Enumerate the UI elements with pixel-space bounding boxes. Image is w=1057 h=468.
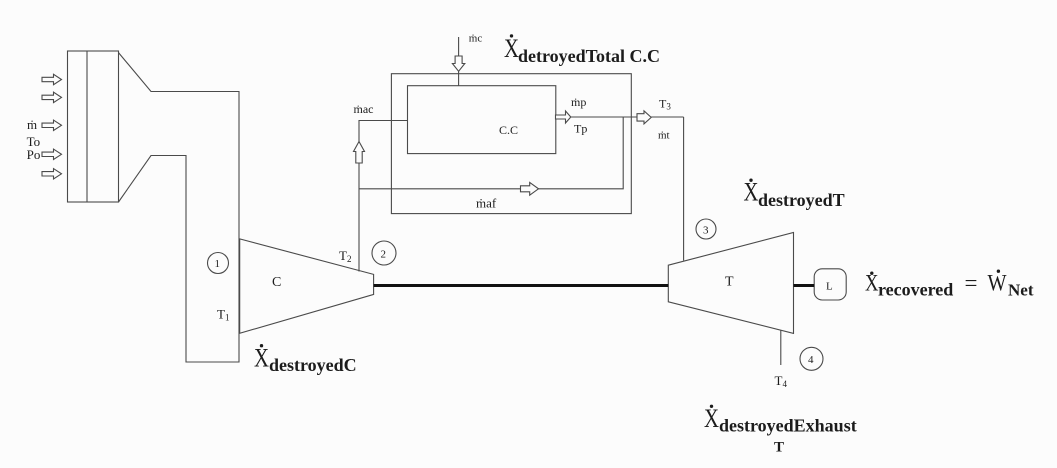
- label Xdot destroyedC: [254, 344, 357, 376]
- svg-text:ṁac: ṁac: [354, 102, 374, 116]
- combustion chamber outer boundary: [391, 74, 631, 214]
- svg-text:ṁaf: ṁaf: [476, 196, 497, 211]
- svg-text:L: L: [826, 281, 833, 293]
- label Xdot destroyedT: [744, 178, 845, 211]
- svg-text:4: 4: [808, 354, 814, 366]
- wire mac: compressor exit to C.C: [359, 121, 408, 272]
- inlet flow arrow 2: [42, 92, 62, 102]
- air intake filter: [68, 51, 119, 202]
- svg-text:T: T: [774, 440, 784, 456]
- arrow mc (down): [452, 56, 464, 71]
- svg-text:ṁp: ṁp: [571, 95, 586, 109]
- combustion chamber C.C: [408, 86, 556, 154]
- arrow T3 (right): [637, 111, 651, 124]
- svg-text:X: X: [254, 344, 269, 373]
- turbine T: [668, 233, 793, 334]
- arrow mac (up): [354, 142, 365, 164]
- svg-text:2: 2: [381, 249, 387, 261]
- svg-text:destroyedT: destroyedT: [758, 190, 845, 210]
- label Xdot destroyedExhaust: [704, 404, 857, 436]
- wire maf bypass: [359, 117, 623, 189]
- svg-text:destroyedC: destroyedC: [269, 355, 357, 375]
- node 1 circle: [208, 253, 229, 274]
- svg-text:recovered: recovered: [878, 280, 953, 300]
- svg-text:ṁt: ṁt: [658, 130, 670, 142]
- svg-text:ṁ: ṁ: [27, 117, 37, 132]
- svg-text:Net: Net: [1008, 281, 1034, 300]
- svg-text:=: =: [965, 270, 978, 295]
- shaft compressor-turbine: [374, 284, 669, 287]
- inlet flow arrow 1: [42, 74, 62, 84]
- svg-text:C: C: [272, 275, 281, 290]
- svg-text:3: 3: [703, 225, 709, 237]
- svg-text:W: W: [988, 270, 1007, 295]
- svg-text:detroyedTotal C.C: detroyedTotal C.C: [518, 46, 660, 66]
- svg-text:T4: T4: [775, 373, 788, 389]
- svg-text:T3: T3: [659, 97, 671, 112]
- turbine exhaust line: [780, 330, 782, 365]
- svg-text:T1: T1: [217, 307, 229, 323]
- svg-text:1: 1: [215, 258, 221, 270]
- fuel line mc: [458, 37, 460, 86]
- load L box: [814, 269, 846, 300]
- svg-text:C.C: C.C: [499, 123, 518, 137]
- svg-text:T: T: [725, 275, 734, 290]
- arrow maf (right): [521, 182, 539, 195]
- svg-text:X: X: [504, 34, 519, 63]
- shaft turbine-load: [794, 284, 815, 287]
- arrow mp (right): [556, 111, 571, 123]
- svg-text:destroyedExhaust: destroyedExhaust: [719, 416, 857, 436]
- svg-text:T2: T2: [339, 248, 351, 264]
- wire T3 down to turbine: [683, 117, 685, 261]
- label Xdot detroyedTotal C.C: [504, 34, 660, 66]
- node 2 circle: [372, 241, 396, 265]
- inlet flow arrow 3: [42, 120, 62, 130]
- svg-text:Tp: Tp: [574, 122, 587, 136]
- label Xdot recovered = Wdot Net: [865, 270, 1034, 300]
- compressor C: [240, 239, 374, 333]
- svg-text:ṁc: ṁc: [469, 33, 483, 45]
- svg-text:Po: Po: [27, 147, 41, 162]
- inlet flow arrow 4: [42, 149, 62, 159]
- wire mp: C.C to turbine line: [556, 116, 684, 118]
- intake duct: [119, 53, 240, 362]
- node 3 circle: [696, 219, 716, 239]
- node 4 circle: [800, 347, 823, 370]
- svg-text:X: X: [704, 404, 719, 433]
- inlet flow arrow 5: [42, 169, 62, 179]
